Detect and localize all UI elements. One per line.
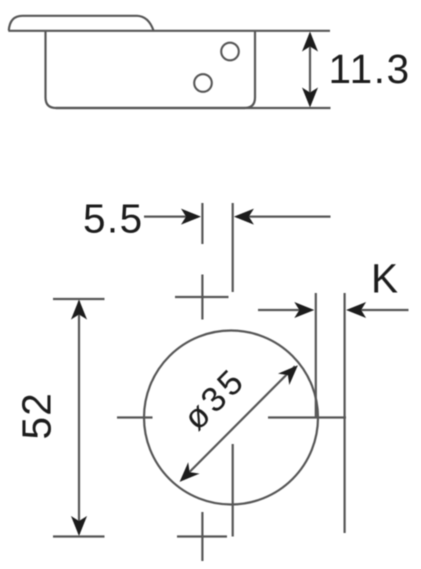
svg-text:K: K: [371, 256, 398, 302]
arrowhead 52 up: [71, 300, 87, 320]
dimension 5.5 right shaft: [237, 216, 331, 218]
hinge top edge line with extension: [8, 30, 330, 32]
circle horizontal centerline left arm: [117, 416, 153, 418]
dimension 52 top tick: [53, 298, 105, 300]
arrowhead 11.3 down: [302, 88, 318, 108]
svg-text:5.5: 5.5: [83, 195, 144, 241]
K dimension right vertical line: [344, 293, 346, 533]
arrowhead 11.3 up: [302, 32, 318, 52]
arrowhead 52 down: [71, 516, 87, 536]
K dimension right shaft: [349, 309, 409, 311]
dimension 52 shaft: [78, 301, 80, 534]
dimension 5.5 left extension tick: [201, 203, 203, 244]
hinge cup body outline: [46, 31, 256, 108]
screw hole upper: [221, 43, 239, 61]
svg-text:ø35: ø35: [176, 361, 253, 438]
arrowhead diameter lower-left: [180, 462, 200, 482]
hinge cap flange outline: [9, 16, 154, 31]
arrowhead diameter upper-right: [278, 365, 298, 385]
svg-text:11.3: 11.3: [329, 46, 411, 92]
hinge bottom edge extension line: [56, 107, 331, 109]
arrowhead K left: [346, 302, 366, 318]
dimension 52 bottom tick: [53, 535, 105, 537]
K dimension left vertical line: [315, 293, 317, 418]
diameter dimension diagonal shaft: [183, 366, 296, 479]
K dimension left shaft: [258, 309, 311, 311]
cup bore circle ø35: [144, 331, 318, 505]
dimension 11.3 arrow shaft: [309, 34, 311, 105]
circle horizontal centerline right arm: [268, 416, 346, 418]
svg-text:52: 52: [13, 392, 59, 439]
screw hole lower: [194, 74, 212, 92]
dimension 5.5 left shaft: [144, 216, 198, 218]
arrowhead K right: [294, 302, 314, 318]
cross mark bottom (drill center): [177, 512, 227, 561]
arrowhead 5.5 right: [181, 209, 201, 225]
vertical centerline upper segment: [232, 203, 234, 292]
cross mark top (drill center): [175, 275, 229, 320]
arrowhead 5.5 left: [234, 209, 254, 225]
vertical centerline lower segment: [232, 444, 234, 537]
